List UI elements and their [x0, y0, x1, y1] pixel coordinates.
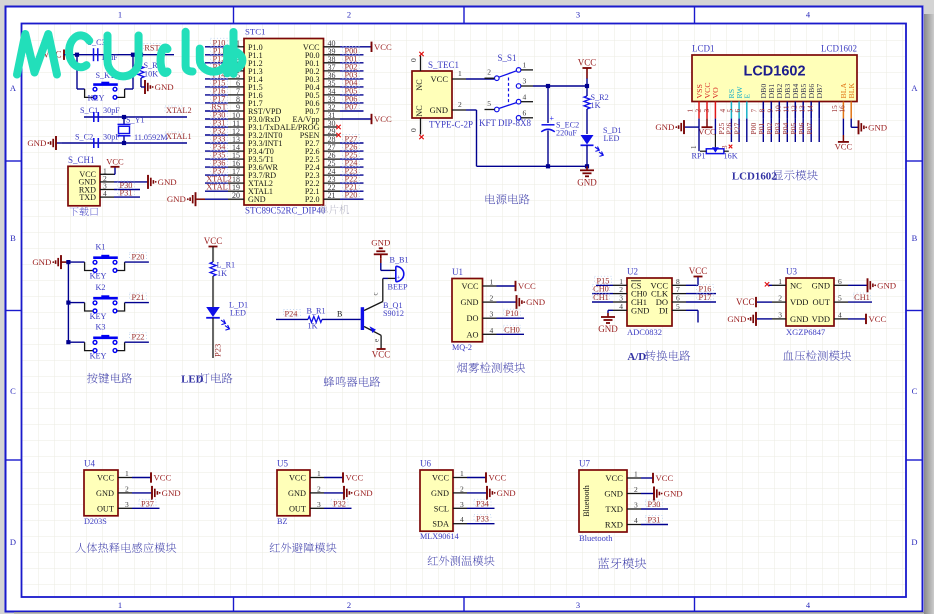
- svg-text:4: 4: [490, 326, 494, 335]
- svg-text:1: 1: [118, 600, 122, 610]
- svg-text:1: 1: [523, 61, 527, 70]
- svg-text:6: 6: [838, 277, 842, 286]
- svg-text:2: 2: [317, 484, 321, 493]
- svg-text:GND: GND: [155, 82, 174, 92]
- svg-text:1K: 1K: [217, 269, 227, 278]
- svg-text:Bluetooth: Bluetooth: [582, 485, 591, 517]
- svg-text:VCC: VCC: [346, 473, 364, 483]
- svg-text:LCD1602: LCD1602: [821, 44, 857, 54]
- svg-text:GND: GND: [27, 138, 46, 148]
- svg-text:P10: P10: [506, 309, 519, 318]
- svg-text:1: 1: [460, 469, 464, 478]
- svg-text:0: 0: [409, 58, 418, 62]
- svg-text:GND: GND: [167, 194, 186, 204]
- svg-text:VCC: VCC: [106, 156, 124, 166]
- svg-text:11: 11: [783, 105, 791, 112]
- svg-text:P20: P20: [132, 253, 145, 262]
- svg-text:U7: U7: [579, 459, 590, 469]
- svg-text:VCC: VCC: [204, 236, 223, 246]
- svg-text:KFT DIP-8X8: KFT DIP-8X8: [479, 118, 532, 128]
- svg-text:MQ-2: MQ-2: [452, 343, 472, 352]
- svg-text:1: 1: [634, 470, 638, 479]
- svg-text:VCC: VCC: [374, 114, 392, 124]
- svg-text:5: 5: [487, 99, 491, 108]
- svg-text:VCC: VCC: [374, 42, 392, 52]
- svg-text:XTAL1: XTAL1: [206, 183, 232, 192]
- svg-text:E: E: [743, 94, 752, 99]
- svg-text:3: 3: [460, 500, 464, 509]
- svg-text:RST: RST: [144, 44, 159, 53]
- svg-text:KEY: KEY: [90, 352, 107, 361]
- svg-text:9: 9: [767, 109, 775, 113]
- svg-text:S_C1: S_C1: [80, 106, 98, 115]
- svg-text:P37: P37: [141, 499, 154, 508]
- svg-text:2: 2: [487, 68, 491, 77]
- svg-text:14: 14: [807, 105, 815, 113]
- svg-text:P31: P31: [120, 189, 133, 198]
- svg-text:P31: P31: [648, 516, 661, 525]
- svg-text:LED: LED: [181, 374, 204, 386]
- svg-text:BEEP: BEEP: [387, 282, 407, 291]
- svg-text:S_CH1: S_CH1: [68, 155, 95, 165]
- svg-text:16K: 16K: [724, 152, 738, 161]
- svg-text:S_C2: S_C2: [75, 133, 93, 142]
- svg-text:TYPE-C-2P: TYPE-C-2P: [429, 120, 473, 130]
- svg-text:LCD1602: LCD1602: [743, 64, 805, 80]
- svg-text:30pF: 30pF: [103, 106, 120, 115]
- svg-text:P07: P07: [345, 103, 358, 112]
- svg-text:1: 1: [118, 10, 122, 20]
- svg-text:NC: NC: [415, 79, 424, 91]
- svg-text:GND: GND: [877, 280, 896, 290]
- svg-text:220uF: 220uF: [556, 129, 577, 138]
- svg-text:2: 2: [125, 484, 129, 493]
- svg-text:AO: AO: [467, 330, 479, 339]
- svg-text:5: 5: [676, 302, 680, 311]
- svg-text:RP1: RP1: [692, 152, 706, 161]
- svg-text:P32: P32: [333, 499, 346, 508]
- svg-text:4: 4: [634, 516, 638, 525]
- svg-text:TXD: TXD: [79, 193, 96, 202]
- svg-text:P30: P30: [648, 500, 661, 509]
- svg-text:GND: GND: [430, 105, 448, 115]
- svg-text:2: 2: [634, 485, 638, 494]
- svg-text:GND: GND: [598, 324, 618, 334]
- svg-text:P20: P20: [345, 191, 358, 200]
- svg-text:K3: K3: [96, 323, 106, 332]
- svg-text:XTAL1: XTAL1: [166, 132, 192, 141]
- svg-text:13: 13: [799, 105, 807, 113]
- svg-text:VCC: VCC: [578, 58, 597, 68]
- svg-text:B: B: [10, 233, 16, 243]
- svg-text:P24: P24: [285, 310, 299, 319]
- svg-text:LCD1602: LCD1602: [732, 171, 777, 183]
- svg-text:P21: P21: [132, 293, 145, 302]
- svg-text:P17: P17: [699, 293, 712, 302]
- svg-text:7: 7: [751, 109, 759, 113]
- svg-text:1: 1: [686, 109, 694, 113]
- svg-text:P33: P33: [476, 515, 489, 524]
- svg-text:VO: VO: [711, 87, 720, 99]
- svg-text:ADC0832: ADC0832: [627, 327, 662, 337]
- svg-text:RXD: RXD: [605, 520, 623, 530]
- svg-text:P22: P22: [132, 333, 145, 342]
- svg-text:3: 3: [778, 310, 782, 319]
- svg-text:4: 4: [523, 93, 527, 102]
- svg-text:U1: U1: [452, 267, 463, 277]
- svg-text:MLX90614: MLX90614: [420, 532, 459, 541]
- svg-text:BLK: BLK: [847, 83, 856, 99]
- svg-text:P07: P07: [805, 122, 814, 134]
- svg-text:3: 3: [721, 145, 729, 149]
- svg-text:U4: U4: [84, 459, 95, 469]
- svg-text:GND: GND: [354, 488, 373, 498]
- svg-text:3: 3: [703, 109, 711, 113]
- svg-text:2: 2: [347, 600, 351, 610]
- svg-text:GND: GND: [32, 257, 51, 267]
- svg-text:1: 1: [458, 69, 462, 78]
- svg-text:16: 16: [839, 105, 847, 113]
- svg-text:VCC: VCC: [605, 473, 623, 483]
- svg-text:+: +: [397, 275, 401, 282]
- svg-text:VCC: VCC: [736, 297, 755, 307]
- svg-text:GND: GND: [631, 305, 649, 315]
- svg-text:6: 6: [523, 109, 527, 118]
- svg-text:OUT: OUT: [813, 297, 831, 307]
- svg-text:GND: GND: [655, 122, 674, 132]
- svg-text:+: +: [550, 114, 555, 123]
- svg-text:Bluetooth: Bluetooth: [579, 533, 613, 543]
- svg-text:KEY: KEY: [88, 94, 105, 103]
- svg-text:S_Y1: S_Y1: [126, 116, 145, 125]
- svg-text:GND: GND: [604, 489, 623, 499]
- svg-text:8: 8: [759, 109, 767, 113]
- svg-text:S_S1: S_S1: [497, 53, 516, 63]
- svg-text:3: 3: [317, 500, 321, 509]
- svg-text:GND: GND: [371, 237, 390, 247]
- svg-text:XGZP6847: XGZP6847: [786, 327, 825, 337]
- svg-text:P23: P23: [212, 344, 222, 357]
- svg-text:1: 1: [778, 277, 782, 286]
- svg-text:GND: GND: [664, 489, 683, 499]
- svg-text:A/D: A/D: [627, 351, 646, 363]
- svg-text:11.0592M: 11.0592M: [134, 133, 168, 142]
- svg-text:LED: LED: [230, 309, 246, 318]
- svg-text:10K: 10K: [144, 70, 158, 79]
- svg-text:12: 12: [791, 105, 799, 113]
- svg-text:VCC: VCC: [154, 473, 172, 483]
- svg-text:3: 3: [125, 500, 129, 509]
- svg-text:1: 1: [690, 145, 698, 149]
- svg-text:A: A: [911, 83, 918, 93]
- svg-text:2: 2: [460, 484, 464, 493]
- svg-text:4: 4: [838, 310, 842, 319]
- svg-text:GND: GND: [431, 489, 449, 498]
- svg-text:B: B: [912, 233, 918, 243]
- svg-text:2: 2: [694, 109, 702, 113]
- svg-text:10: 10: [775, 105, 783, 113]
- svg-text:VCC: VCC: [656, 473, 674, 483]
- svg-text:GND: GND: [288, 489, 306, 498]
- svg-text:S_TEC1: S_TEC1: [428, 60, 459, 70]
- svg-text:3: 3: [523, 77, 527, 86]
- svg-text:VCC: VCC: [432, 474, 450, 483]
- svg-text:GND: GND: [790, 314, 808, 324]
- svg-text:VDD: VDD: [790, 297, 808, 307]
- svg-text:GND: GND: [812, 280, 830, 290]
- svg-text:OUT: OUT: [97, 504, 114, 513]
- svg-text:15: 15: [831, 105, 839, 113]
- svg-text:GND: GND: [727, 314, 746, 324]
- svg-text:1: 1: [317, 469, 321, 478]
- svg-text:e: e: [373, 339, 381, 342]
- svg-text:VCC: VCC: [835, 141, 853, 151]
- svg-text:4: 4: [460, 515, 464, 524]
- svg-text:3: 3: [576, 10, 580, 20]
- svg-text:KEY: KEY: [90, 272, 107, 281]
- svg-text:4: 4: [619, 302, 623, 311]
- svg-text:1: 1: [125, 469, 129, 478]
- svg-text:0: 0: [409, 128, 418, 132]
- svg-text:P2.0: P2.0: [305, 195, 320, 204]
- svg-text:B_R1: B_R1: [307, 307, 326, 316]
- svg-text:VCC: VCC: [869, 314, 887, 324]
- svg-text:A: A: [10, 83, 17, 93]
- svg-text:D203S: D203S: [84, 517, 107, 526]
- svg-text:BZ: BZ: [277, 517, 287, 526]
- svg-text:SCL: SCL: [434, 504, 449, 513]
- svg-text:KEY: KEY: [90, 312, 107, 321]
- svg-text:VCC: VCC: [289, 474, 307, 483]
- svg-text:VCC: VCC: [431, 74, 449, 84]
- svg-text:6: 6: [734, 109, 742, 113]
- svg-text:2: 2: [458, 100, 462, 109]
- svg-text:GND: GND: [158, 177, 177, 187]
- svg-text:3: 3: [634, 501, 638, 510]
- svg-text:C: C: [912, 386, 918, 396]
- svg-text:STC89C52RC_DIP40: STC89C52RC_DIP40: [245, 206, 326, 216]
- svg-text:LCD1: LCD1: [692, 44, 715, 54]
- svg-text:VCC: VCC: [518, 281, 536, 291]
- svg-text:1K: 1K: [591, 101, 601, 110]
- svg-text:GND: GND: [162, 488, 181, 498]
- svg-text:VCC: VCC: [489, 473, 507, 483]
- svg-text:P27: P27: [732, 122, 741, 134]
- svg-text:2: 2: [347, 10, 351, 20]
- svg-text:2: 2: [490, 294, 494, 303]
- svg-text:XTAL2: XTAL2: [166, 106, 192, 115]
- svg-text:K2: K2: [96, 283, 106, 292]
- svg-text:VCC: VCC: [689, 266, 708, 276]
- svg-text:GND: GND: [497, 488, 516, 498]
- svg-text:VCC: VCC: [461, 282, 479, 291]
- svg-text:D: D: [10, 537, 16, 547]
- svg-text:GND: GND: [461, 298, 479, 307]
- svg-text:3: 3: [490, 310, 494, 319]
- svg-text:VCC: VCC: [698, 127, 716, 137]
- svg-text:CH1: CH1: [854, 293, 870, 302]
- svg-text:LED: LED: [604, 134, 620, 143]
- svg-text:GND: GND: [248, 195, 266, 204]
- svg-text:NC: NC: [790, 280, 802, 290]
- svg-text:P34: P34: [476, 499, 490, 508]
- svg-text:NC: NC: [415, 105, 424, 117]
- svg-text:C: C: [10, 386, 16, 396]
- svg-text:VDD: VDD: [812, 314, 830, 324]
- svg-text:c: c: [372, 292, 380, 295]
- svg-text:B: B: [337, 310, 342, 319]
- svg-text:U5: U5: [277, 459, 288, 469]
- svg-text:U6: U6: [420, 459, 431, 469]
- svg-text:GND: GND: [526, 297, 545, 307]
- svg-text:K1: K1: [96, 243, 106, 252]
- svg-text:VCC: VCC: [97, 474, 115, 483]
- svg-text:S9012: S9012: [383, 309, 404, 318]
- svg-text:DB7: DB7: [815, 84, 824, 99]
- svg-text:GND: GND: [868, 122, 887, 132]
- svg-text:STC1: STC1: [245, 27, 266, 37]
- svg-text:CH1: CH1: [593, 293, 609, 302]
- svg-text:B_B1: B_B1: [390, 256, 409, 265]
- svg-text:1K: 1K: [308, 322, 318, 331]
- svg-text:30pF: 30pF: [103, 133, 120, 142]
- svg-text:SDA: SDA: [432, 520, 449, 529]
- svg-text:CH0: CH0: [504, 325, 520, 334]
- svg-text:1: 1: [490, 278, 494, 287]
- svg-text:3: 3: [576, 600, 580, 610]
- svg-text:2: 2: [778, 294, 782, 303]
- svg-text:D: D: [911, 537, 917, 547]
- svg-text:VCC: VCC: [372, 350, 391, 360]
- svg-text:U3: U3: [786, 267, 797, 277]
- svg-text:5: 5: [838, 294, 842, 303]
- svg-text:U2: U2: [627, 267, 638, 277]
- svg-text:GND: GND: [577, 177, 597, 187]
- svg-text:DI: DI: [659, 305, 668, 315]
- svg-text:GND: GND: [96, 489, 114, 498]
- svg-text:DO: DO: [467, 314, 479, 323]
- svg-text:OUT: OUT: [289, 504, 306, 513]
- svg-text:TXD: TXD: [605, 504, 623, 514]
